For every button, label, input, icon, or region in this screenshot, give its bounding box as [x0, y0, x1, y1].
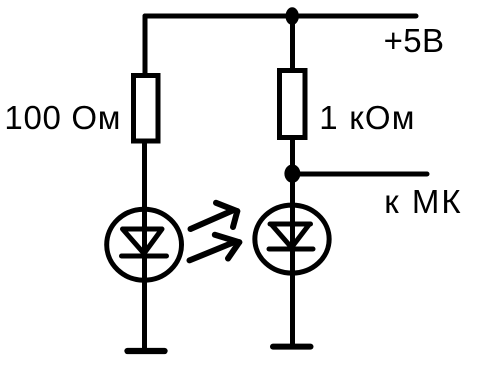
wire: +5V top rail	[145, 14, 416, 19]
LED D1 triangle right side	[144, 229, 162, 254]
LED D1 triangle left side	[123, 229, 145, 254]
light arrow 1 shaft	[191, 211, 232, 229]
svg-text:1 кОм: 1 кОм	[319, 99, 415, 136]
LED D2 triangle left side	[271, 224, 292, 248]
LED D1 body (emitter circle)	[107, 209, 182, 280]
LED D2 cathode bar	[269, 247, 313, 252]
light arrow 1 head upper stroke	[216, 203, 237, 211]
light arrow 2 head lower stroke	[228, 242, 239, 258]
LED D2 anode bar	[270, 222, 311, 227]
ground: left branch	[128, 348, 165, 354]
light arrow 2 shaft	[190, 243, 233, 260]
light arrow 2 head upper stroke	[215, 235, 240, 242]
ground: right branch	[273, 344, 311, 350]
svg-text:100 Ом: 100 Ом	[4, 99, 121, 136]
LED D1 anode bar	[123, 227, 162, 232]
wire: tap to microcontroller (к МК)	[295, 172, 427, 177]
svg-text:+5В: +5В	[384, 22, 445, 59]
node: junction of rail and right branch (dot)	[286, 7, 299, 25]
wire: left branch, rail to resistor R1	[143, 16, 148, 76]
svg-text:к МК: к МК	[384, 183, 462, 220]
LED D1 cathode bar	[122, 254, 167, 259]
resistor R1 (100 Ом)	[134, 76, 159, 142]
resistor R2 (1 кОм)	[280, 71, 306, 138]
wire: right branch, rail to resistor R2	[290, 16, 295, 72]
wire: right branch, R2 through LED D2 to ground	[290, 137, 295, 345]
LED D2 triangle right side	[292, 224, 310, 248]
light arrow 1 head lower stroke	[233, 211, 237, 227]
LED D2 body (detector circle)	[255, 205, 329, 273]
node: junction of R2, D2 and MCU tap (dot)	[284, 164, 300, 182]
wire: left branch, R1 through LED D1 to ground	[142, 140, 147, 349]
